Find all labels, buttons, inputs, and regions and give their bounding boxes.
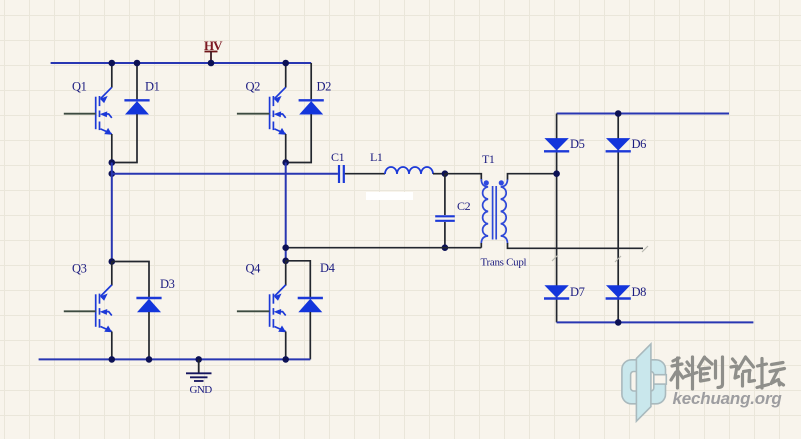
- transistor Q4: [270, 285, 286, 332]
- svg-text:Q2: Q2: [246, 80, 261, 94]
- node: D3 anode dot: [146, 356, 153, 363]
- svg-text:C1: C1: [331, 150, 345, 164]
- svg-text:Trans Cupl: Trans Cupl: [481, 257, 527, 269]
- node: Q2 collector on rail: [282, 60, 289, 67]
- node: secondary phasing dot: [499, 180, 504, 185]
- watermark logo C body: [622, 344, 666, 421]
- svg-text:HV: HV: [204, 38, 223, 53]
- wire: Q3 collector stub: [111, 262, 113, 286]
- capacitor C1: [339, 165, 344, 183]
- diode D2: [299, 100, 324, 114]
- char lun: [731, 359, 739, 378]
- power port HV bar and stub: [205, 52, 218, 64]
- wire: D4 cathode corner: [286, 261, 311, 298]
- node: left midpoint dot lower: [109, 170, 116, 177]
- wire: primary bottom stem: [480, 243, 482, 248]
- ground: [186, 359, 212, 381]
- wire: secondary top line: [508, 174, 557, 180]
- watermark logo bar: [636, 344, 651, 421]
- wire: primary top line: [445, 174, 481, 181]
- wire: Q4 collector stub: [285, 261, 287, 286]
- node: HV junction dot: [208, 60, 215, 67]
- white patch artifact: [366, 192, 413, 200]
- diode D8: [606, 285, 631, 298]
- wire: Q4 emitter stub: [285, 332, 287, 360]
- wire: lower bridge output line: [286, 247, 482, 249]
- diode D4: [298, 298, 323, 312]
- svg-text:D6: D6: [632, 137, 647, 151]
- node: right midpoint dot: [282, 159, 289, 166]
- diode D2 stem top: [310, 63, 312, 100]
- core lines: [492, 186, 494, 240]
- transistor Q1: [96, 87, 112, 134]
- wire: Q2 emitter stub: [285, 134, 287, 163]
- svg-text:D3: D3: [160, 277, 175, 291]
- node: secondary to left leg dot: [553, 170, 560, 177]
- svg-text:L1: L1: [370, 150, 383, 164]
- wire: Q3 gate lead: [64, 310, 96, 312]
- wire: C2 top stem: [444, 174, 446, 215]
- node: C2 bottom junction: [442, 244, 449, 251]
- wire: rectifier left leg: [556, 114, 558, 323]
- svg-text:D2: D2: [317, 80, 332, 94]
- svg-text:Q3: Q3: [72, 262, 87, 276]
- node: L1/C2 junction: [442, 170, 449, 177]
- watermark chinese characters: [671, 357, 785, 389]
- primary winding: [481, 179, 488, 244]
- wire: L1 to junction: [433, 173, 445, 175]
- diode D1: [124, 100, 149, 114]
- wire: Q2 gate lead: [237, 113, 270, 115]
- wire: Q4 gate lead: [237, 310, 270, 312]
- node: Q4 collector dot: [282, 258, 289, 265]
- node: GND junction dot: [195, 356, 202, 363]
- diode D3: [136, 298, 161, 312]
- diode D6: [606, 138, 631, 151]
- wire: rectifier top rail: [557, 113, 729, 115]
- svg-text:C2: C2: [457, 199, 471, 213]
- node: Q4 emitter dot: [282, 356, 289, 363]
- char ke: [671, 358, 683, 388]
- wire: D3 anode stem: [148, 312, 150, 359]
- node: right leg tap: [282, 244, 289, 251]
- wire: bottom GND rail: [39, 358, 311, 360]
- svg-text:D4: D4: [320, 261, 336, 275]
- node: D1 on rail: [134, 60, 141, 67]
- inductor L1: [385, 167, 433, 174]
- svg-text:kechuang.org: kechuang.org: [673, 389, 783, 408]
- wire: top HV rail: [51, 62, 312, 64]
- wire: Q1 collector stub: [111, 63, 113, 88]
- node: Q1 collector on rail: [109, 60, 116, 67]
- wire: rectifier bottom rail: [557, 321, 754, 323]
- node: right leg bottom dot: [615, 319, 622, 326]
- wire: Q1 emitter stub: [111, 134, 113, 163]
- svg-text:Q4: Q4: [246, 262, 262, 276]
- transistor Q3: [96, 285, 112, 332]
- wire: secondary bottom line: [508, 243, 644, 248]
- svg-text:T1: T1: [482, 152, 495, 166]
- svg-text:Q1: Q1: [72, 80, 87, 94]
- node: left midpoint dot upper: [109, 159, 116, 166]
- svg-text:D8: D8: [632, 285, 647, 299]
- wire: C2 bottom stem: [444, 222, 446, 248]
- node: primary phasing dot: [484, 180, 489, 185]
- svg-text:D5: D5: [570, 137, 585, 151]
- secondary winding: [501, 179, 508, 244]
- transformer T1: [481, 179, 507, 244]
- wire: D4 anode stem: [309, 312, 311, 359]
- diode D7: [544, 285, 569, 298]
- wire: Q1 gate lead: [64, 113, 96, 115]
- pin mark artifact near secondary line end: [552, 246, 648, 262]
- char chuang: [699, 357, 713, 381]
- svg-text:D7: D7: [570, 285, 585, 299]
- wire: Q2 collector stub: [285, 63, 287, 88]
- transistor Q2: [270, 87, 286, 134]
- node: Q3 collector dot: [109, 258, 116, 265]
- char tan: [757, 359, 769, 389]
- diode D5: [544, 138, 569, 151]
- svg-text:D1: D1: [145, 80, 160, 94]
- wire: D2 anode corner to right midpoint: [286, 114, 312, 162]
- wire: right leg vertical: [285, 163, 287, 261]
- wire: phase output line to C1: [112, 173, 338, 175]
- diode D1 stem top: [136, 63, 138, 100]
- capacitor C2: [435, 216, 455, 221]
- node: Q3 emitter dot: [109, 356, 116, 363]
- svg-text:GND: GND: [190, 384, 213, 396]
- wire: C1 to L1: [345, 173, 385, 175]
- wire: Q3 emitter stub: [111, 332, 113, 360]
- wire: rectifier right leg: [617, 114, 619, 323]
- wire: D3 cathode corner from Q3 collector: [112, 262, 149, 299]
- wire: left leg vertical: [111, 163, 113, 262]
- wire: D1 anode corner to midpoint: [112, 114, 137, 162]
- node: right leg top dot: [615, 110, 622, 117]
